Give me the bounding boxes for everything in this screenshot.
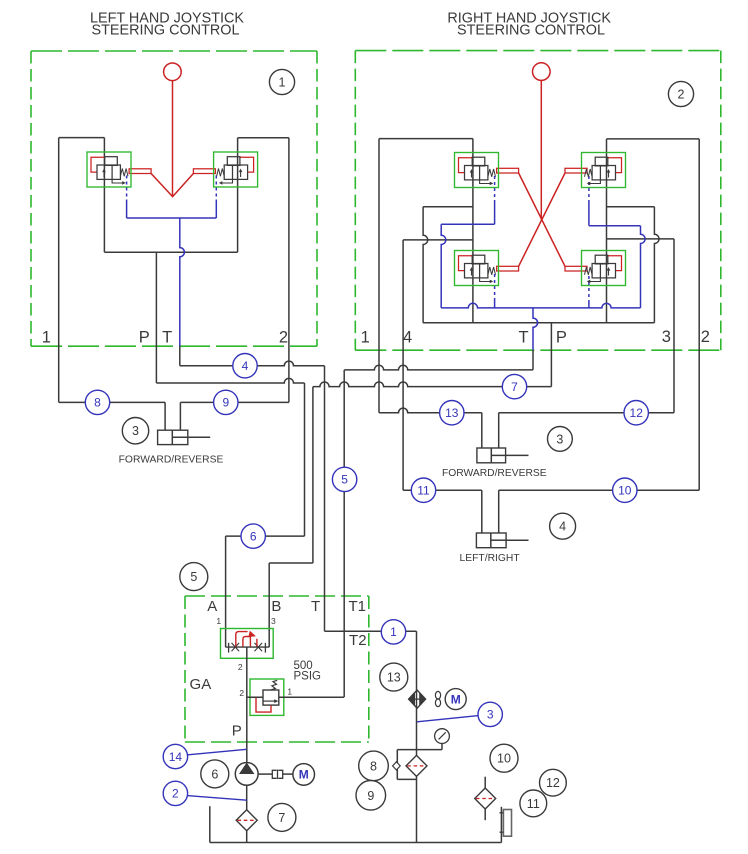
svg-text:11: 11 [417,484,430,498]
svg-text:2: 2 [239,688,244,698]
svg-text:6: 6 [211,767,218,781]
svg-text:9: 9 [367,789,374,803]
svg-text:2: 2 [238,662,243,672]
svg-text:M: M [299,768,309,782]
svg-text:13: 13 [445,406,459,420]
svg-text:STEERING CONTROL: STEERING CONTROL [457,22,605,38]
svg-text:M: M [451,692,461,706]
svg-text:3: 3 [662,328,671,346]
svg-text:A: A [207,598,217,615]
svg-text:3: 3 [556,432,563,446]
svg-text:P: P [232,723,242,740]
svg-text:1: 1 [42,328,51,346]
svg-text:P: P [556,328,567,346]
svg-text:1: 1 [279,76,286,90]
svg-text:7: 7 [511,380,518,394]
svg-text:4: 4 [403,328,412,346]
svg-text:9: 9 [222,396,229,410]
svg-text:4: 4 [559,520,566,534]
svg-text:1: 1 [361,328,370,346]
svg-text:1: 1 [216,616,221,626]
svg-text:2: 2 [678,88,685,102]
svg-text:P: P [139,328,150,346]
svg-text:4: 4 [242,359,249,373]
svg-text:12: 12 [630,406,644,420]
svg-text:LEFT/RIGHT: LEFT/RIGHT [460,553,521,564]
svg-text:14: 14 [169,750,183,764]
svg-text:2: 2 [701,328,710,346]
svg-text:8: 8 [370,759,377,773]
svg-text:3: 3 [132,424,139,438]
svg-text:FORWARD/REVERSE: FORWARD/REVERSE [442,468,547,479]
svg-text:B: B [271,598,281,615]
svg-text:11: 11 [527,797,540,811]
svg-text:1: 1 [390,625,397,639]
svg-text:6: 6 [250,529,257,543]
svg-text:FORWARD/REVERSE: FORWARD/REVERSE [119,455,224,466]
svg-text:1: 1 [287,686,292,696]
svg-text:T1: T1 [348,598,366,615]
svg-text:8: 8 [94,396,101,410]
svg-text:7: 7 [278,811,285,825]
svg-text:GA: GA [190,676,212,693]
svg-text:2: 2 [279,328,288,346]
svg-text:3: 3 [487,708,494,722]
svg-text:13: 13 [387,671,401,685]
svg-text:12: 12 [546,776,560,790]
svg-text:3: 3 [271,616,276,626]
svg-text:T2: T2 [349,632,367,649]
svg-text:10: 10 [497,752,511,766]
svg-text:5: 5 [341,473,348,487]
svg-text:T: T [518,328,528,346]
svg-text:10: 10 [618,484,632,498]
svg-text:T: T [162,328,172,346]
svg-text:5: 5 [190,570,197,584]
svg-text:PSIG: PSIG [294,671,322,683]
svg-text:STEERING CONTROL: STEERING CONTROL [92,22,240,38]
svg-text:T: T [311,598,320,615]
svg-text:2: 2 [172,787,179,801]
